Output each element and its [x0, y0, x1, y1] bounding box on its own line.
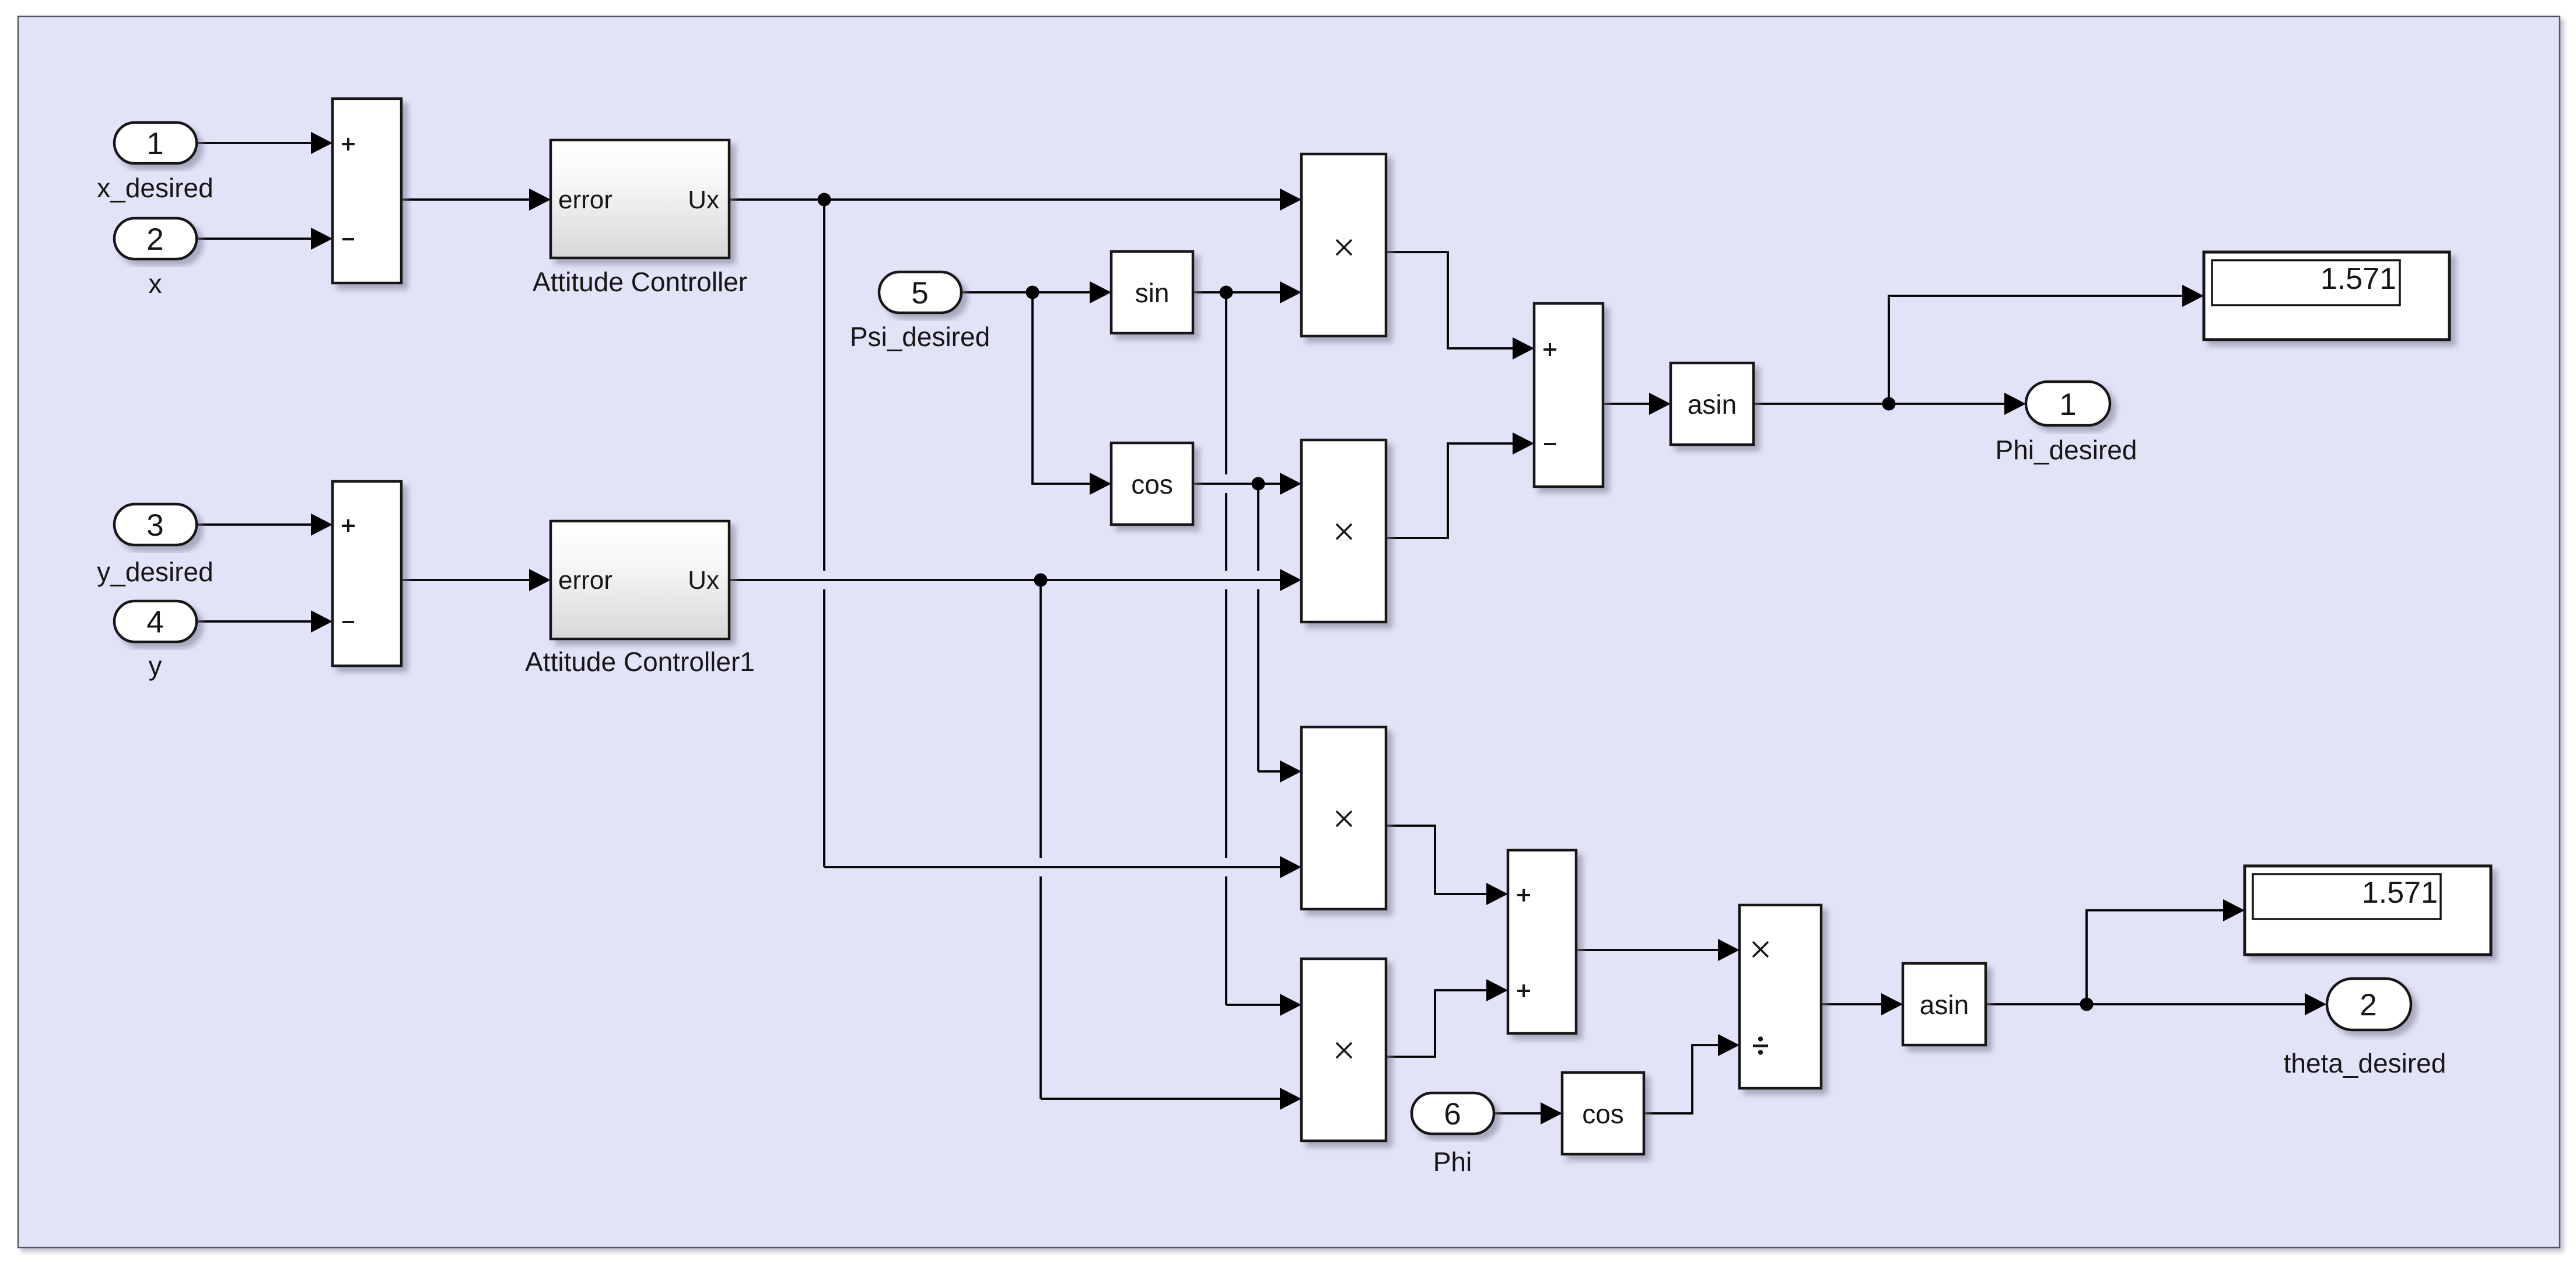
product block Product2 — [1301, 440, 1386, 622]
wire: branch to Product4 in2 — [1041, 1088, 1301, 1110]
svg-text:Attitude Controller: Attitude Controller — [533, 267, 747, 297]
svg-text:theta_desired: theta_desired — [2284, 1048, 2446, 1078]
svg-text:error: error — [558, 566, 612, 595]
wire: Sum1 to Attitude Controller error — [401, 188, 551, 211]
svg-text:Ux: Ux — [688, 566, 719, 595]
wire: branch to Product4 in1 — [1226, 994, 1301, 1016]
svg-text:Phi: Phi — [1433, 1147, 1472, 1177]
wire: Product3 to Sum4 in1 — [1386, 826, 1508, 905]
junction: Ux1 node — [818, 193, 831, 207]
svg-text:1.571: 1.571 — [2362, 876, 2438, 910]
svg-text:y_desired: y_desired — [97, 557, 213, 587]
inport 6 — [1412, 1093, 1494, 1134]
wire: Sum3 to asin — [1603, 393, 1671, 415]
wire: sin to Product1 in2 — [1193, 281, 1301, 303]
wire: branch up to Display — [1889, 285, 2204, 404]
subsystem Attitude Controller1 — [551, 521, 729, 639]
svg-text:error: error — [558, 186, 612, 214]
product block Product1 — [1301, 154, 1386, 336]
display block Display — [2204, 252, 2449, 340]
junction: cos node — [1252, 477, 1265, 491]
wire: asin to Outport 1 — [1753, 393, 2026, 415]
sum block Sum2 — [332, 481, 401, 666]
wire: Attitude Controller Ux branch vertical x=1413 — [823, 200, 825, 867]
wire: Inport 6 to cos1 — [1494, 1102, 1562, 1124]
svg-text:1.571: 1.571 — [2320, 262, 2396, 296]
sum block Sum4 — [1508, 850, 1576, 1033]
outport 2 — [2327, 979, 2411, 1030]
wire: Inport 5 to sin — [961, 281, 1111, 303]
svg-text:Phi_desired: Phi_desired — [1996, 435, 2137, 465]
junction: Psi node — [1026, 286, 1039, 299]
divide block Divide — [1739, 905, 1821, 1088]
junction: theta_desired node — [2080, 998, 2094, 1011]
wire: cos to Product2 in1 — [1193, 473, 1301, 495]
svg-text:2: 2 — [146, 222, 163, 257]
subsystem Attitude Controller — [551, 140, 729, 258]
junction: sin node — [1220, 286, 1233, 299]
inport 4 — [114, 601, 197, 642]
trig block asin — [1671, 363, 1753, 445]
svg-text:2: 2 — [2360, 988, 2376, 1022]
svg-text:asin: asin — [1688, 389, 1737, 420]
svg-text:Psi_desired: Psi_desired — [850, 322, 990, 352]
wire: branch to Product3 in2 — [824, 856, 1301, 878]
trig block sin — [1111, 251, 1193, 333]
svg-text:1: 1 — [2059, 387, 2076, 422]
svg-text:x: x — [149, 268, 162, 299]
wire: Attitude Controller Ux to Product1 in1 — [729, 188, 1301, 211]
wire crossing gaps — [821, 474, 1261, 876]
wire: cos output branch vertical x=2157 — [1257, 484, 1259, 771]
svg-text:Ux: Ux — [688, 186, 719, 214]
sum block Sum3 — [1534, 303, 1603, 487]
inport 3 — [114, 504, 197, 545]
sum block Sum1 — [332, 99, 401, 283]
trig block cos1 — [1562, 1073, 1644, 1154]
wire: Product1 to Sum3 plus — [1386, 252, 1534, 359]
wire: Product4 to Sum4 in2 — [1386, 979, 1508, 1057]
svg-text:cos: cos — [1582, 1099, 1624, 1129]
svg-text:1: 1 — [146, 127, 163, 161]
inport 2 — [114, 218, 197, 259]
wire: Inport 4 to Sum2 minus — [197, 610, 332, 633]
junction: Phi_desired node — [1882, 397, 1896, 411]
trig block asin1 — [1903, 963, 1986, 1045]
svg-text:Attitude Controller1: Attitude Controller1 — [525, 647, 755, 677]
junction: Ux2 node — [1034, 574, 1048, 587]
product block Product3 — [1301, 727, 1386, 909]
wire: asin1 to Outport 2 — [1986, 993, 2326, 1015]
svg-text:5: 5 — [911, 276, 928, 310]
svg-text:x_desired: x_desired — [97, 173, 213, 203]
svg-text:y: y — [149, 651, 162, 681]
svg-text:6: 6 — [1444, 1097, 1461, 1131]
svg-text:cos: cos — [1131, 469, 1173, 499]
svg-text:sin: sin — [1135, 278, 1170, 308]
wire: Divide to asin1 — [1821, 993, 1903, 1015]
wire: Attitude Controller1 Ux to Product2 in2 — [729, 569, 1301, 591]
wire: Product2 to Sum3 minus — [1386, 432, 1534, 538]
wire: Sum2 to Attitude Controller1 error — [401, 569, 551, 591]
wire: branch up to Display1 — [2087, 899, 2245, 1004]
wire: cos1 to Divide divide — [1644, 1034, 1739, 1113]
inport 1 — [114, 123, 197, 163]
svg-text:asin: asin — [1920, 990, 1969, 1020]
wire: Inport 3 to Sum2 plus — [197, 514, 332, 536]
wire: Attitude Controller1 Ux branch vertical x=1784 — [1039, 580, 1042, 1099]
display block Display1 — [2245, 866, 2491, 955]
svg-text:4: 4 — [146, 605, 163, 640]
outport 1 — [2026, 382, 2110, 425]
inport 5 — [879, 272, 961, 313]
product block Product4 — [1301, 959, 1386, 1141]
wire: Psi_desired branch down to cos — [1032, 292, 1111, 495]
wire: Inport 1 to Sum1 plus — [197, 132, 332, 154]
wire: branch to Product3 in1 — [1258, 760, 1301, 783]
wire: sin output branch vertical x=2102 — [1225, 292, 1227, 1005]
svg-text:3: 3 — [146, 508, 163, 543]
trig block cos — [1111, 443, 1193, 525]
wire: Inport 2 to Sum1 minus — [197, 228, 332, 250]
wire: Sum4 to Divide times — [1576, 939, 1739, 961]
